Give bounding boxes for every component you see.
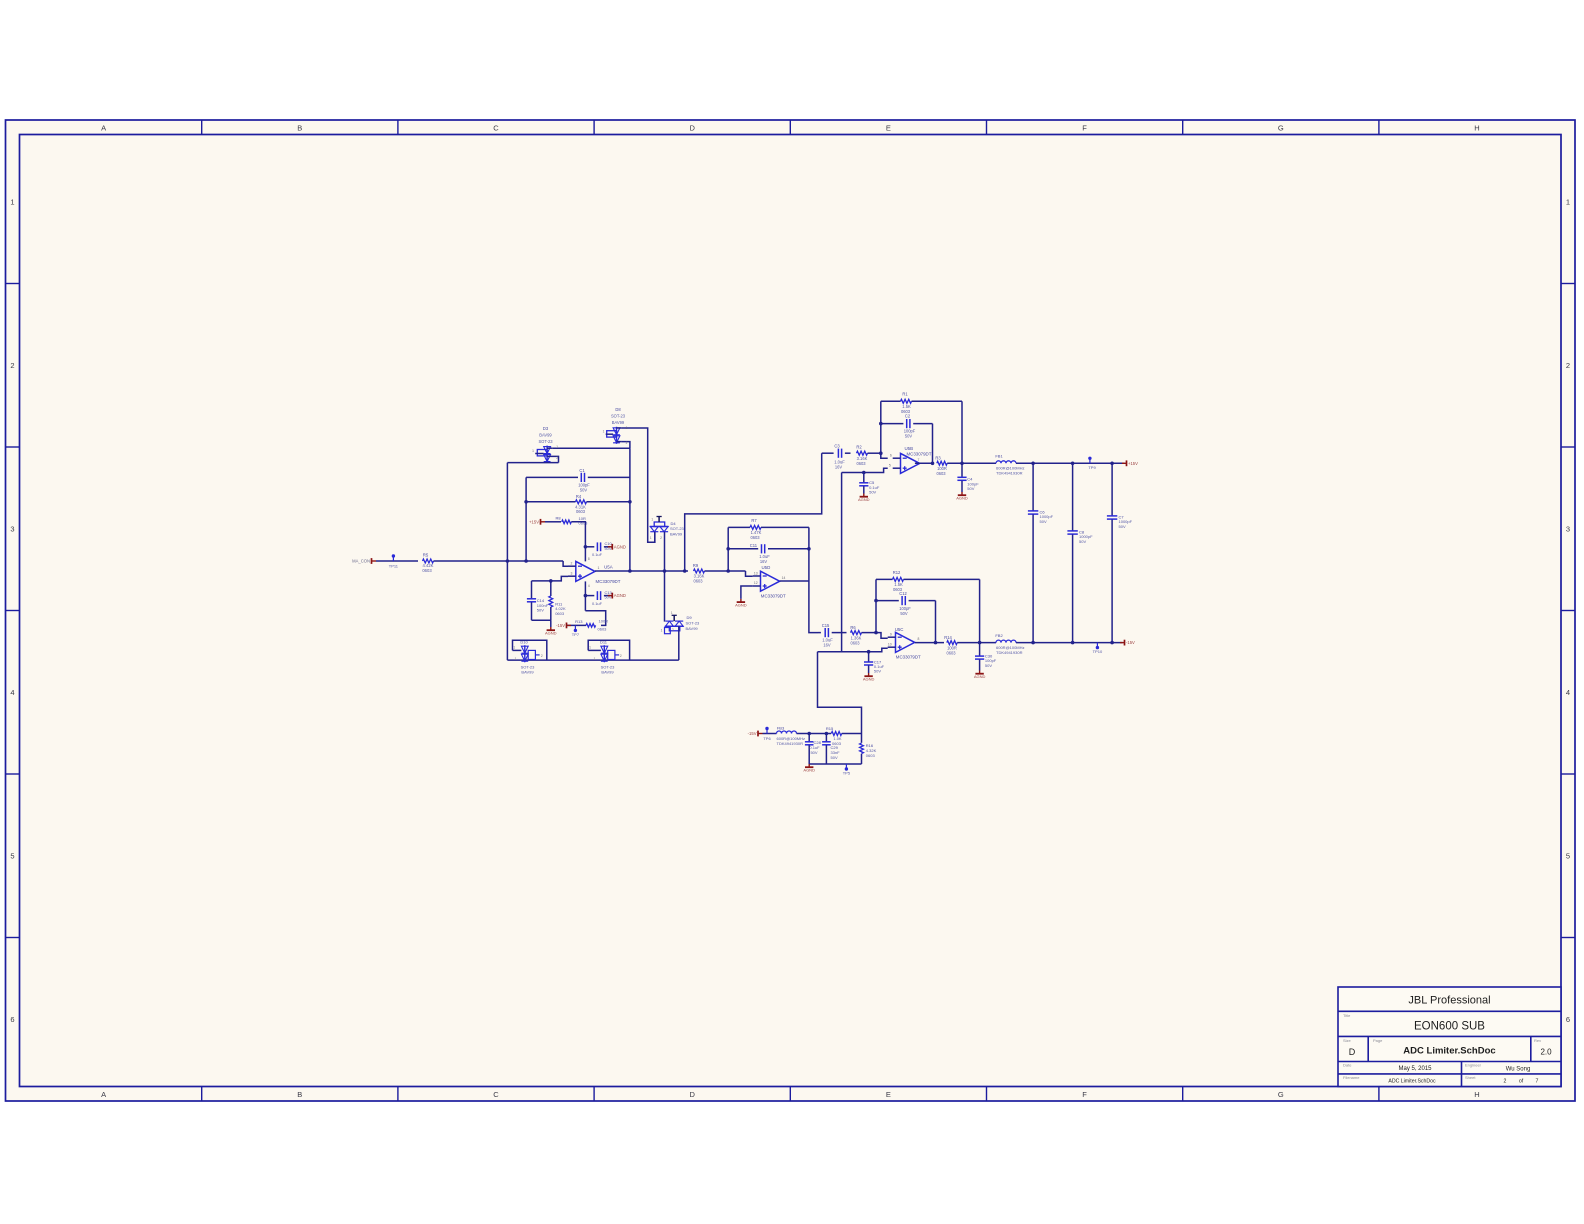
wire up to C3 branch bbox=[685, 453, 822, 571]
svg-text:BAV99: BAV99 bbox=[539, 433, 552, 438]
resistor R7 bbox=[728, 518, 809, 540]
svg-text:Page: Page bbox=[1373, 1038, 1383, 1043]
wire feedback left vertical bbox=[525, 477, 527, 561]
svg-text:-15V: -15V bbox=[556, 623, 565, 628]
junction C7 bottom bbox=[1110, 641, 1114, 645]
capacitor C6 bbox=[1028, 463, 1054, 642]
svg-text:AGND: AGND bbox=[735, 603, 747, 608]
op-amp U5A bbox=[568, 561, 621, 584]
svg-text:D: D bbox=[689, 124, 695, 133]
svg-text:C15: C15 bbox=[822, 623, 830, 628]
svg-text:3: 3 bbox=[1566, 524, 1570, 533]
test point TP11 bbox=[389, 554, 399, 568]
pin numbers D8 bbox=[603, 426, 628, 445]
junction U5B in bbox=[879, 451, 883, 455]
svg-text:C: C bbox=[493, 1090, 499, 1099]
power AGND (C30) bbox=[974, 671, 986, 680]
svg-text:6: 6 bbox=[1566, 1015, 1570, 1024]
svg-text:50V: 50V bbox=[1040, 519, 1047, 524]
wire U5B out bbox=[915, 462, 934, 464]
svg-text:BAV99: BAV99 bbox=[612, 420, 625, 425]
svg-text:H: H bbox=[1474, 1090, 1479, 1099]
svg-text:JBL Professional: JBL Professional bbox=[1408, 995, 1490, 1007]
svg-text:1: 1 bbox=[556, 445, 558, 449]
svg-text:R4: R4 bbox=[576, 494, 582, 499]
wire +15V to R8 bbox=[545, 521, 561, 523]
svg-text:EON600 SUB: EON600 SUB bbox=[1414, 1021, 1485, 1033]
svg-text:+15V: +15V bbox=[1128, 461, 1138, 466]
svg-text:2.0: 2.0 bbox=[1540, 1048, 1552, 1057]
pin numbers D4 bbox=[650, 517, 662, 540]
junction fb cap right bbox=[807, 547, 811, 551]
svg-text:C1: C1 bbox=[579, 468, 585, 473]
svg-text:0.1uF: 0.1uF bbox=[592, 552, 603, 557]
junction C28 bbox=[807, 732, 811, 736]
svg-text:AGND: AGND bbox=[614, 593, 626, 598]
svg-text:1: 1 bbox=[603, 430, 605, 434]
capacitor C7 bbox=[1107, 463, 1133, 642]
svg-text:MC33079DT: MC33079DT bbox=[761, 594, 786, 599]
svg-text:B: B bbox=[297, 1090, 302, 1099]
wire fb2 cap right vertical bbox=[935, 601, 937, 643]
svg-text:D: D bbox=[689, 1090, 695, 1099]
svg-text:MC33079DT: MC33079DT bbox=[896, 655, 921, 660]
svg-text:4: 4 bbox=[10, 688, 14, 697]
junction out/C12 bbox=[934, 641, 938, 645]
svg-text:AGND: AGND bbox=[545, 631, 557, 636]
junction R12 loop bbox=[978, 641, 982, 645]
wire U5B fb left vertical bbox=[880, 401, 882, 453]
drawing frame with zone labels bbox=[6, 120, 1576, 1101]
svg-text:AGND: AGND bbox=[956, 496, 968, 501]
svg-text:AGND: AGND bbox=[858, 497, 870, 502]
wire U5A + input jog bbox=[532, 576, 569, 581]
wire V- to R13 bbox=[585, 611, 605, 626]
wire D3 to D8 bbox=[552, 447, 630, 449]
capacitor C4 bbox=[957, 463, 979, 492]
svg-text:0603: 0603 bbox=[850, 640, 860, 645]
svg-text:Filename: Filename bbox=[1343, 1075, 1360, 1080]
svg-text:1: 1 bbox=[515, 657, 517, 661]
ferrite bead FB1 bbox=[995, 454, 1024, 476]
junction main/D9 bbox=[663, 569, 667, 573]
svg-text:A: A bbox=[101, 1090, 106, 1099]
svg-text:May 5, 2015: May 5, 2015 bbox=[1398, 1066, 1432, 1072]
wire D3 bottom loop bbox=[507, 462, 558, 464]
svg-text:U5D: U5D bbox=[762, 565, 771, 570]
svg-text:E: E bbox=[886, 1090, 891, 1099]
svg-text:50V: 50V bbox=[905, 434, 913, 439]
svg-text:TDK4941930R: TDK4941930R bbox=[996, 650, 1023, 655]
junction C8 bottom bbox=[1071, 641, 1075, 645]
svg-text:-15V: -15V bbox=[1126, 640, 1135, 645]
svg-text:16V: 16V bbox=[760, 559, 768, 564]
svg-text:C: C bbox=[493, 124, 499, 133]
svg-text:Title: Title bbox=[1343, 1013, 1351, 1018]
svg-text:TP9: TP9 bbox=[1088, 465, 1096, 470]
svg-text:D3: D3 bbox=[543, 426, 549, 431]
power -15V (rail) bbox=[1120, 640, 1135, 646]
svg-text:0603: 0603 bbox=[598, 626, 608, 631]
wire clamp left vertical bbox=[506, 463, 508, 660]
junction fb2 cap left bbox=[874, 599, 878, 603]
svg-text:TP7: TP7 bbox=[572, 632, 580, 637]
svg-text:U5B: U5B bbox=[905, 446, 914, 451]
junction C6 bottom bbox=[1031, 641, 1035, 645]
svg-text:D4: D4 bbox=[671, 521, 677, 526]
svg-text:16V: 16V bbox=[823, 642, 831, 647]
resistor R13 bbox=[575, 619, 608, 632]
resistor R14 bbox=[944, 635, 957, 656]
wire feedback right vertical bbox=[629, 448, 631, 571]
svg-text:R13: R13 bbox=[575, 619, 583, 624]
junction fb3 cap left bbox=[879, 422, 883, 426]
resistor R15 bbox=[826, 726, 842, 746]
power AGND (C17) bbox=[863, 673, 875, 682]
svg-text:50V: 50V bbox=[1079, 539, 1086, 544]
svg-text:100R: 100R bbox=[599, 619, 609, 624]
junction V+ decouple bbox=[584, 545, 588, 549]
wire FB1 to +15V bbox=[1016, 462, 1125, 464]
power AGND (ref) bbox=[803, 764, 815, 773]
wire R13 to -15V bbox=[567, 624, 586, 626]
svg-text:MC33079DT: MC33079DT bbox=[907, 451, 932, 456]
junction C17 bbox=[867, 650, 871, 654]
svg-text:50V: 50V bbox=[810, 750, 817, 755]
wire U5C + rail bbox=[818, 648, 888, 652]
wire U5D out down bbox=[809, 581, 818, 633]
svg-text:ADC Limiter.SchDoc: ADC Limiter.SchDoc bbox=[1388, 1078, 1436, 1084]
svg-text:B: B bbox=[297, 124, 302, 133]
power -15V (ref) bbox=[748, 731, 763, 737]
svg-text:BAV99: BAV99 bbox=[601, 669, 614, 674]
ferrite bead FB3 bbox=[777, 725, 806, 746]
svg-text:2: 2 bbox=[620, 654, 622, 658]
svg-text:U5C: U5C bbox=[895, 627, 904, 632]
diode D9 bbox=[665, 615, 701, 660]
svg-text:50V: 50V bbox=[831, 755, 838, 760]
junction input/clamp bbox=[506, 559, 510, 563]
op-amp U5C bbox=[888, 627, 921, 660]
wire R14 to FB2 bbox=[957, 642, 996, 644]
svg-text:10: 10 bbox=[888, 642, 892, 646]
svg-text:Sheet: Sheet bbox=[1465, 1075, 1476, 1080]
svg-text:TP11: TP11 bbox=[389, 564, 399, 569]
svg-text:0603: 0603 bbox=[750, 535, 760, 540]
diode D3 bbox=[535, 426, 558, 462]
svg-text:1: 1 bbox=[1566, 197, 1570, 206]
port MA_CON input bbox=[352, 558, 376, 564]
resistor R1 bbox=[881, 392, 962, 414]
wire U5B fb right vertical bbox=[961, 401, 963, 463]
wire R15 to R16 bbox=[842, 733, 862, 735]
test point TP5 bbox=[843, 764, 851, 775]
capacitor C28 bbox=[805, 734, 822, 765]
svg-text:SOT-23: SOT-23 bbox=[611, 414, 626, 419]
svg-text:1: 1 bbox=[651, 517, 653, 521]
svg-text:ADC Limiter.SchDoc: ADC Limiter.SchDoc bbox=[1403, 1046, 1495, 1057]
svg-text:9: 9 bbox=[890, 633, 892, 637]
svg-text:MC33079DT: MC33079DT bbox=[596, 579, 621, 584]
svg-text:6: 6 bbox=[10, 1015, 14, 1024]
junction out/C2 bbox=[931, 462, 935, 466]
wire FB3 to R15 bbox=[797, 733, 832, 735]
svg-text:0603: 0603 bbox=[866, 753, 876, 758]
svg-text:SOT-23: SOT-23 bbox=[686, 620, 701, 625]
svg-text:+15V: +15V bbox=[529, 519, 539, 524]
wire U5B + jog bbox=[842, 468, 888, 472]
test point TP7 bbox=[572, 625, 580, 636]
capacitor C5 bbox=[859, 473, 880, 495]
svg-text:50V: 50V bbox=[580, 488, 588, 493]
svg-text:1: 1 bbox=[10, 197, 14, 206]
pin numbers D9 bbox=[661, 611, 674, 633]
svg-text:R9: R9 bbox=[693, 563, 699, 568]
svg-text:-15V: -15V bbox=[748, 731, 757, 736]
power AGND (C10) bbox=[608, 544, 626, 550]
svg-text:1: 1 bbox=[594, 657, 596, 661]
resistor R9 bbox=[693, 563, 705, 584]
wire U5A V- down bbox=[584, 581, 586, 610]
wire R2 to U5B bbox=[868, 453, 888, 458]
svg-text:0603: 0603 bbox=[936, 471, 946, 476]
power +15V (rail) bbox=[1122, 460, 1138, 466]
capacitor C17 bbox=[864, 652, 873, 673]
title block bbox=[1338, 987, 1561, 1087]
svg-text:R3: R3 bbox=[935, 456, 941, 461]
svg-text:Engineer: Engineer bbox=[1465, 1063, 1482, 1068]
wire input to R5 bbox=[376, 560, 418, 562]
wire FB2 to -15V bbox=[1016, 642, 1123, 644]
pin numbers D3 bbox=[532, 445, 558, 460]
ferrite bead FB2 bbox=[995, 633, 1024, 655]
svg-text:5: 5 bbox=[10, 851, 14, 860]
test point TP9 bbox=[1088, 457, 1096, 470]
svg-text:50V: 50V bbox=[900, 611, 908, 616]
svg-text:1: 1 bbox=[626, 426, 628, 430]
junction U5D fb bbox=[726, 569, 730, 573]
svg-text:TDK4941930R: TDK4941930R bbox=[777, 741, 804, 746]
capacitor C15 bbox=[818, 623, 847, 647]
resistor R3 bbox=[935, 456, 947, 477]
resistor R11 bbox=[549, 581, 566, 620]
wire U5C fb left vertical bbox=[875, 579, 877, 632]
junction U5C fb bbox=[874, 631, 878, 635]
svg-text:2: 2 bbox=[541, 654, 543, 658]
junction C8 top bbox=[1071, 462, 1075, 466]
wire -15V to FB3 bbox=[763, 733, 777, 735]
svg-text:BAV99: BAV99 bbox=[521, 669, 534, 674]
svg-text:G: G bbox=[1278, 124, 1284, 133]
svg-text:C11: C11 bbox=[750, 543, 758, 548]
svg-text:1: 1 bbox=[513, 646, 515, 650]
labels C17 bbox=[874, 659, 885, 673]
junction C6 top bbox=[1031, 462, 1035, 466]
wire U5D out bbox=[780, 580, 809, 582]
svg-text:3: 3 bbox=[571, 571, 573, 575]
svg-text:U5A: U5A bbox=[604, 565, 613, 570]
resistor R8 bbox=[555, 515, 588, 525]
svg-text:E: E bbox=[886, 124, 891, 133]
pin numbers D10 bbox=[513, 646, 543, 661]
svg-text:R12: R12 bbox=[893, 570, 901, 575]
capacitor C30 bbox=[975, 643, 997, 671]
capacitor C2 bbox=[881, 413, 933, 438]
svg-text:6: 6 bbox=[890, 454, 892, 458]
svg-text:16V: 16V bbox=[835, 465, 843, 470]
diode D10 bbox=[513, 640, 547, 675]
svg-text:TDK4941930R: TDK4941930R bbox=[996, 471, 1023, 476]
power AGND (bias) bbox=[545, 627, 557, 636]
svg-text:R1: R1 bbox=[902, 392, 908, 397]
wire R9 to U5D bbox=[705, 571, 753, 576]
svg-text:0.1uF: 0.1uF bbox=[592, 601, 603, 606]
svg-text:D10: D10 bbox=[520, 640, 528, 645]
svg-text:1: 1 bbox=[589, 646, 591, 650]
wire bias bottom bbox=[532, 620, 552, 627]
svg-text:AGND: AGND bbox=[863, 677, 875, 682]
svg-text:2: 2 bbox=[660, 536, 662, 540]
svg-text:0603: 0603 bbox=[576, 509, 586, 514]
svg-text:50V: 50V bbox=[985, 663, 992, 668]
junction C29 bbox=[825, 732, 829, 736]
svg-text:2: 2 bbox=[626, 441, 628, 445]
capacitor C3 bbox=[822, 443, 851, 469]
wire U5D fb right vertical bbox=[808, 527, 810, 581]
junction right feedback bbox=[628, 500, 632, 573]
resistor R4 bbox=[526, 494, 630, 514]
svg-text:C28: C28 bbox=[814, 740, 822, 745]
wire R5 to U5A bbox=[434, 561, 569, 566]
wire bias down bbox=[818, 652, 862, 734]
svg-text:R6: R6 bbox=[850, 625, 856, 630]
svg-text:SOT-23: SOT-23 bbox=[670, 526, 685, 531]
svg-text:0603: 0603 bbox=[856, 461, 866, 466]
svg-text:2: 2 bbox=[556, 456, 558, 460]
pin numbers U5A power bbox=[588, 557, 590, 588]
capacitor C11 bbox=[728, 543, 809, 564]
svg-text:A: A bbox=[101, 124, 106, 133]
svg-text:of: of bbox=[1519, 1078, 1524, 1084]
svg-text:50V: 50V bbox=[869, 490, 876, 495]
svg-text:BAV99: BAV99 bbox=[686, 626, 699, 631]
svg-text:3: 3 bbox=[10, 524, 14, 533]
capacitor C1 bbox=[526, 468, 630, 493]
diode D8 bbox=[606, 407, 626, 444]
svg-text:1: 1 bbox=[650, 536, 652, 540]
svg-text:4: 4 bbox=[588, 584, 590, 588]
svg-text:1: 1 bbox=[598, 566, 600, 570]
wire + bias vertical bbox=[841, 473, 843, 652]
svg-text:2: 2 bbox=[1504, 1078, 1507, 1084]
svg-text:5: 5 bbox=[1566, 851, 1570, 860]
svg-text:1: 1 bbox=[532, 449, 534, 453]
svg-text:12: 12 bbox=[754, 581, 758, 585]
svg-text:R14: R14 bbox=[944, 635, 952, 640]
svg-text:MA_CON: MA_CON bbox=[352, 559, 370, 564]
svg-text:SOT-23: SOT-23 bbox=[538, 439, 553, 444]
capacitor C13 bbox=[585, 590, 611, 606]
resistor R6 bbox=[850, 625, 861, 646]
junction out/up bbox=[683, 569, 687, 573]
wire D8 bottom to feedback node bbox=[622, 442, 630, 449]
svg-text:2: 2 bbox=[10, 361, 14, 370]
resistor R2 bbox=[856, 444, 867, 466]
svg-text:FB1: FB1 bbox=[995, 454, 1003, 459]
svg-text:1: 1 bbox=[671, 611, 673, 615]
svg-text:D8: D8 bbox=[615, 407, 621, 412]
wire fb3 cap right vertical bbox=[932, 424, 934, 464]
wire clamp to D10 bbox=[507, 659, 678, 661]
power AGND (C5) bbox=[858, 494, 870, 503]
svg-text:Rev: Rev bbox=[1534, 1038, 1541, 1043]
svg-text:F: F bbox=[1082, 1090, 1087, 1099]
capacitor C8 bbox=[1067, 463, 1093, 642]
junction C5 bbox=[862, 471, 866, 475]
pin numbers D11 bbox=[589, 646, 622, 661]
svg-text:AGND: AGND bbox=[974, 674, 986, 679]
capacitor C12 bbox=[876, 591, 936, 616]
svg-text:8: 8 bbox=[588, 557, 590, 561]
svg-text:0603: 0603 bbox=[422, 568, 432, 573]
svg-text:50V: 50V bbox=[537, 608, 544, 613]
svg-text:AGND: AGND bbox=[803, 768, 815, 773]
svg-text:D: D bbox=[1349, 1047, 1356, 1057]
svg-text:AGND: AGND bbox=[614, 544, 626, 549]
wire U5D + to AGND bbox=[741, 586, 753, 599]
junction left feedback bbox=[524, 500, 528, 563]
junction bias bbox=[549, 579, 553, 583]
svg-text:50V: 50V bbox=[1119, 524, 1126, 529]
power AGND (U5D) bbox=[735, 599, 747, 608]
svg-text:7: 7 bbox=[918, 458, 920, 462]
svg-text:5: 5 bbox=[889, 463, 891, 467]
svg-text:F: F bbox=[1082, 124, 1087, 133]
svg-text:BAV99: BAV99 bbox=[670, 532, 683, 537]
svg-text:R2: R2 bbox=[856, 444, 862, 449]
capacitor C14 bbox=[527, 581, 549, 620]
svg-text:50V: 50V bbox=[967, 486, 974, 491]
wire D8 top to D4 bbox=[622, 428, 655, 542]
op-amp U5D bbox=[753, 565, 786, 598]
svg-text:D9: D9 bbox=[687, 615, 693, 620]
capacitor C29 bbox=[822, 734, 840, 765]
svg-text:2: 2 bbox=[1566, 361, 1570, 370]
wire R6 to U5C bbox=[862, 633, 888, 639]
svg-text:R15: R15 bbox=[826, 726, 834, 731]
power -15V (U5A) bbox=[556, 623, 571, 629]
svg-text:D11: D11 bbox=[600, 640, 608, 645]
resistor R5 bbox=[422, 553, 433, 574]
svg-text:50V: 50V bbox=[874, 669, 881, 674]
svg-text:G: G bbox=[1278, 1090, 1284, 1099]
svg-text:0603: 0603 bbox=[693, 579, 703, 584]
junction fb cap left bbox=[726, 547, 730, 551]
svg-text:13: 13 bbox=[754, 571, 758, 575]
diode D4 bbox=[648, 517, 685, 572]
wire ref bottom rail bbox=[809, 763, 861, 765]
junction V- decouple bbox=[584, 594, 588, 598]
svg-text:C12: C12 bbox=[899, 591, 907, 596]
wire R3 to FB1 bbox=[947, 462, 996, 464]
svg-text:4: 4 bbox=[1566, 688, 1570, 697]
svg-text:TP6: TP6 bbox=[763, 736, 771, 741]
svg-text:0603: 0603 bbox=[555, 611, 565, 616]
power AGND (C13) bbox=[608, 593, 626, 599]
svg-text:0603: 0603 bbox=[946, 650, 956, 655]
wire U5C fb right vertical bbox=[979, 579, 981, 642]
wire U5C out bbox=[915, 642, 944, 644]
